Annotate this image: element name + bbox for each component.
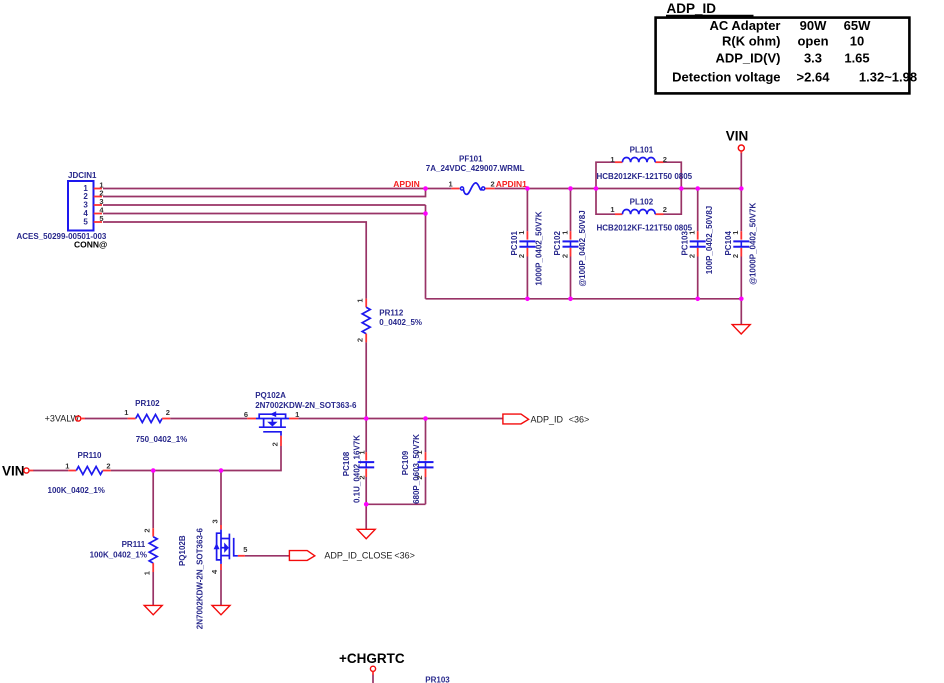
svg-text:<36>: <36> xyxy=(394,551,415,561)
inductor PL102 xyxy=(596,189,693,233)
fuse PF101 xyxy=(426,154,525,194)
resistor PR112 xyxy=(356,299,422,343)
wire pin1 to fuse xyxy=(103,188,451,190)
svg-text:2N7002KDW-2N_SOT363-6: 2N7002KDW-2N_SOT363-6 xyxy=(196,527,205,629)
resistor PR103 (label, cut off at page edge) xyxy=(425,676,450,683)
svg-text:6: 6 xyxy=(244,410,248,419)
svg-text:2: 2 xyxy=(143,528,152,532)
ground (PQ102B) xyxy=(212,605,230,614)
wire VIN row xyxy=(111,446,281,471)
ground (VIN filter) xyxy=(732,325,750,334)
svg-text:3: 3 xyxy=(210,519,219,523)
svg-text:APDIN: APDIN xyxy=(393,179,419,189)
resistor PR111 xyxy=(90,528,158,575)
svg-text:PR112: PR112 xyxy=(379,308,404,317)
svg-text:2: 2 xyxy=(663,205,667,214)
svg-text:1.65: 1.65 xyxy=(844,51,869,66)
svg-text:7A_24VDC_429007.WRML: 7A_24VDC_429007.WRML xyxy=(426,164,525,173)
svg-text:APDIN1: APDIN1 xyxy=(496,179,527,189)
svg-text:65W: 65W xyxy=(844,18,871,33)
svg-text:PC108: PC108 xyxy=(342,451,351,476)
svg-text:2: 2 xyxy=(106,461,110,470)
svg-text:PR110: PR110 xyxy=(77,451,102,460)
svg-text:1: 1 xyxy=(143,571,152,575)
svg-text:2: 2 xyxy=(491,180,495,189)
svg-text:100K_0402_1%: 100K_0402_1% xyxy=(90,551,147,560)
svg-text:VIN: VIN xyxy=(2,464,25,479)
resistor PR110 xyxy=(48,451,111,495)
svg-text:ADP_ID: ADP_ID xyxy=(531,415,564,425)
svg-text:ADP_ID: ADP_ID xyxy=(667,1,717,16)
svg-text:100K_0402_1%: 100K_0402_1% xyxy=(48,486,105,495)
wire pin3/4 down to bottom bus xyxy=(425,205,427,299)
svg-text:PC109: PC109 xyxy=(401,450,410,475)
svg-text:3.3: 3.3 xyxy=(804,51,822,66)
svg-text:VIN: VIN xyxy=(726,128,749,143)
svg-text:CONN@: CONN@ xyxy=(74,240,107,250)
svg-text:2: 2 xyxy=(663,155,667,164)
svg-text:1: 1 xyxy=(610,155,614,164)
capacitor PC108 xyxy=(342,435,374,503)
svg-text:PL101: PL101 xyxy=(630,145,654,154)
svg-text:0.1U_0402_16V7K: 0.1U_0402_16V7K xyxy=(353,435,362,503)
svg-text:1000P_0402_50V7K: 1000P_0402_50V7K xyxy=(535,211,544,286)
wire PR112 to ADP_ID node xyxy=(365,342,367,418)
wire PQ102B gate to port xyxy=(245,555,290,557)
node VIN left xyxy=(2,464,68,479)
svg-text:100P_0402_50V8J: 100P_0402_50V8J xyxy=(705,206,714,275)
wire pin4 xyxy=(103,213,426,215)
svg-text:PL102: PL102 xyxy=(630,197,654,206)
inductor PL101 xyxy=(596,145,693,188)
svg-text:2: 2 xyxy=(270,442,279,446)
wire bottom bus xyxy=(426,298,742,300)
svg-text:AC Adapter: AC Adapter xyxy=(709,18,780,33)
capacitor PC109 xyxy=(401,434,433,504)
net label APDIN xyxy=(393,179,419,189)
svg-text:HCB2012KF-121T50 0805: HCB2012KF-121T50 0805 xyxy=(597,172,693,181)
node VIN top xyxy=(726,128,749,188)
svg-text:2: 2 xyxy=(356,338,365,342)
capacitor PC103 xyxy=(680,206,714,275)
svg-text:<36>: <36> xyxy=(569,415,590,425)
svg-text:JDCIN1: JDCIN1 xyxy=(68,171,97,180)
svg-text:1: 1 xyxy=(610,205,614,214)
node +CHGRTC xyxy=(339,651,405,683)
capacitor PC104 xyxy=(724,203,758,285)
svg-text:Detection voltage: Detection voltage xyxy=(672,69,780,84)
svg-text:PC103: PC103 xyxy=(680,231,689,256)
svg-text:90W: 90W xyxy=(800,18,827,33)
wire PC103 branch xyxy=(697,189,699,299)
wire PR102 to PQ102A xyxy=(170,418,247,420)
svg-text:@100P_0402_50V8J: @100P_0402_50V8J xyxy=(578,210,587,286)
svg-text:+CHGRTC: +CHGRTC xyxy=(339,651,405,666)
svg-text:PF101: PF101 xyxy=(459,154,483,163)
svg-text:@1000P_0402_50V7K: @1000P_0402_50V7K xyxy=(749,203,758,285)
svg-text:R(K ohm): R(K ohm) xyxy=(722,34,781,49)
wire PC101 branch xyxy=(526,189,528,299)
wire VIN column to bottom bus xyxy=(740,189,742,325)
svg-text:PC104: PC104 xyxy=(724,231,733,256)
table ADP_ID box xyxy=(656,18,918,94)
wire PQ102A to ADP_ID port xyxy=(298,418,503,420)
svg-text:1: 1 xyxy=(65,461,69,470)
svg-text:+3VALW: +3VALW xyxy=(45,414,80,424)
svg-text:PC101: PC101 xyxy=(510,231,519,256)
capacitor PC101 xyxy=(510,211,544,286)
ground (PR111) xyxy=(144,605,162,614)
ground (PC108) xyxy=(357,529,375,538)
svg-text:PR102: PR102 xyxy=(135,399,160,408)
wire pin3 xyxy=(103,204,426,206)
port ADP_ID xyxy=(503,414,589,425)
svg-text:1: 1 xyxy=(124,408,128,417)
svg-text:10: 10 xyxy=(850,34,864,49)
svg-text:680P_0603_50V7K: 680P_0603_50V7K xyxy=(412,434,421,504)
svg-text:750_0402_1%: 750_0402_1% xyxy=(136,435,188,444)
wire PC109 branch xyxy=(366,419,425,505)
svg-text:1.32~1.98: 1.32~1.98 xyxy=(859,69,917,84)
wire PR111 branch xyxy=(152,471,154,529)
transistor PQ102B xyxy=(178,519,248,629)
svg-text:>2.64: >2.64 xyxy=(797,69,831,84)
wire fuse to VIN column xyxy=(495,188,742,190)
svg-text:5: 5 xyxy=(243,545,247,554)
capacitor PC102 xyxy=(553,210,587,286)
node +3VALW xyxy=(45,414,128,424)
svg-text:5: 5 xyxy=(99,214,103,223)
wire PC108 to ground xyxy=(365,504,367,529)
svg-text:PR103: PR103 xyxy=(425,676,450,683)
svg-text:PR111: PR111 xyxy=(122,540,146,549)
resistor PR102 xyxy=(124,399,187,444)
wire PQ102B drain branch xyxy=(220,471,222,526)
svg-text:2: 2 xyxy=(166,408,170,417)
svg-text:5: 5 xyxy=(83,218,88,227)
wire pin5 to PR112 xyxy=(103,222,366,299)
wire pin2 xyxy=(103,189,426,197)
wire PC102 branch xyxy=(570,189,572,299)
svg-text:PQ102B: PQ102B xyxy=(178,535,187,566)
wire PC108 branch xyxy=(365,419,367,505)
svg-text:ADP_ID_CLOSE: ADP_ID_CLOSE xyxy=(324,551,392,561)
svg-text:1: 1 xyxy=(356,299,365,303)
svg-text:PQ102A: PQ102A xyxy=(255,391,286,400)
connector JDCIN1 xyxy=(17,171,108,249)
wire PR111 to ground xyxy=(152,572,154,605)
svg-text:open: open xyxy=(797,34,828,49)
svg-text:0_0402_5%: 0_0402_5% xyxy=(379,318,422,327)
svg-text:ADP_ID(V): ADP_ID(V) xyxy=(715,51,780,66)
wire PQ102B source to ground xyxy=(220,570,222,605)
svg-text:2N7002KDW-2N_SOT363-6: 2N7002KDW-2N_SOT363-6 xyxy=(255,401,357,410)
transistor PQ102A xyxy=(244,391,357,446)
net label APDIN1 xyxy=(496,179,527,189)
table ADP_ID title xyxy=(666,1,754,16)
svg-text:PC102: PC102 xyxy=(553,231,562,256)
svg-text:HCB2012KF-121T50 0805: HCB2012KF-121T50 0805 xyxy=(597,224,693,233)
port ADP_ID_CLOSE xyxy=(289,551,415,561)
svg-text:1: 1 xyxy=(449,180,453,189)
